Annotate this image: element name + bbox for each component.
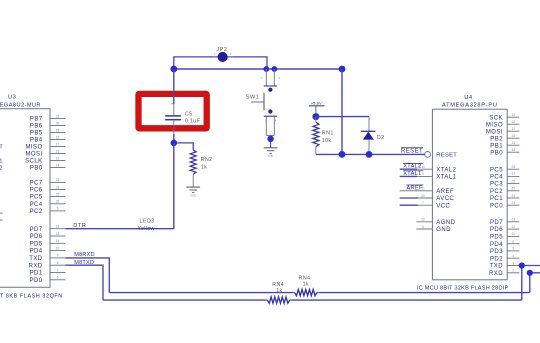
svg-text:PD5: PD5: [30, 241, 43, 247]
switch SW1 top pins: [261, 69, 281, 86]
U4 pin VCC (7) left side: [416, 201, 450, 209]
svg-text:13: 13: [512, 218, 516, 222]
U4 pin XTAL2 (10) left side: [416, 165, 456, 173]
node junction at (369,154.4): [366, 151, 373, 158]
svg-text:28: 28: [512, 165, 516, 169]
svg-text:23: 23: [56, 185, 60, 189]
net AREF wire: [400, 190, 417, 192]
U4 pin PD4 (6) right side: [490, 240, 519, 248]
resistor RN1 zigzag: [313, 117, 319, 155]
svg-text:MISO: MISO: [25, 145, 42, 151]
svg-text:D2: D2: [377, 135, 385, 141]
svg-text:RESET: RESET: [401, 149, 423, 155]
wire C5 bottom to DTR node: [173, 134, 175, 143]
svg-text:TXD: TXD: [29, 256, 43, 262]
svg-text:18: 18: [56, 135, 60, 139]
svg-text:AGND: AGND: [436, 220, 455, 226]
svg-text:RN4: RN4: [299, 275, 311, 281]
svg-text:PD5: PD5: [490, 235, 503, 241]
svg-text:PC3: PC3: [490, 182, 503, 188]
svg-text:RESET: RESET: [436, 153, 457, 159]
U3 pin PC7 (22): [30, 178, 66, 186]
highlight box around C5: [139, 94, 207, 128]
node junction at (270.6,138.8): [267, 136, 273, 142]
U4 pin PD3 (5) right side: [490, 247, 519, 255]
U4 pin MISO (18) right side: [486, 120, 520, 128]
U4 pin MOSI (17) right side: [486, 127, 520, 135]
U4 pin RESET (1) with inversion bubble: [425, 152, 458, 159]
svg-text:21: 21: [56, 114, 60, 118]
svg-text:PD7: PD7: [490, 220, 503, 226]
svg-text:12: 12: [56, 232, 60, 236]
svg-text:SCK: SCK: [489, 115, 503, 121]
net XTAL1 wire: [400, 175, 417, 177]
svg-text:PC2: PC2: [30, 209, 43, 215]
node junction at (274.3,69): [271, 66, 277, 72]
svg-text:7: 7: [57, 268, 59, 272]
svg-text:PC5: PC5: [490, 167, 503, 173]
svg-text:PB2: PB2: [490, 136, 503, 142]
svg-text:IC MCU 8BIT 32KB FLASH 28DIP: IC MCU 8BIT 32KB FLASH 28DIP: [417, 286, 509, 292]
U3 pin PC2 (5): [30, 207, 66, 215]
svg-text:MOSI: MOSI: [486, 129, 503, 135]
U3 pin RXD (8): [29, 261, 66, 269]
wire reset row RN1..U4: [316, 153, 425, 155]
svg-text:PD6: PD6: [30, 234, 43, 240]
svg-text:10: 10: [56, 246, 60, 250]
svg-text:RXD: RXD: [29, 263, 43, 269]
svg-text:PB0: PB0: [490, 150, 503, 156]
svg-text:13: 13: [56, 225, 60, 229]
SW1 upper contact: [268, 88, 272, 92]
U4 pin PC0 (23) right side: [490, 201, 519, 209]
svg-text:MOSI: MOSI: [25, 152, 42, 158]
svg-text:2: 2: [512, 269, 514, 273]
svg-text:AVCC: AVCC: [436, 196, 454, 202]
svg-text:LED3: LED3: [140, 218, 155, 224]
svg-text:6: 6: [57, 276, 59, 280]
svg-text:16: 16: [512, 134, 516, 138]
svg-text:26: 26: [56, 200, 60, 204]
U3 clipped left-side stub marks: [0, 212, 3, 215]
net VCC wire: [400, 204, 418, 206]
svg-text:Yellow: Yellow: [138, 226, 155, 232]
net label AREF with overline: [407, 185, 424, 191]
svg-text:25: 25: [56, 192, 60, 196]
U4 pin PC3 (26) right side: [490, 179, 519, 187]
U4 pin AREF (21) left side: [416, 187, 454, 195]
net label RESET with overline: [401, 148, 423, 155]
svg-text:22: 22: [56, 178, 60, 182]
svg-text:PD3: PD3: [490, 249, 503, 255]
svg-text:XTAL1: XTAL1: [436, 175, 456, 181]
svg-text:12: 12: [512, 225, 516, 229]
C5 pin lead bottom: [173, 120, 175, 135]
U4 pin PC4 (27) right side: [490, 172, 519, 180]
wire lower serial bus y=300.1: [103, 299, 522, 301]
U3 pin PD5 (11): [30, 239, 66, 247]
svg-text:6: 6: [512, 240, 514, 244]
wire top reset rail (y=69): [174, 68, 342, 70]
wire JP2 branch (y=56.9): [174, 57, 267, 69]
svg-text:VCC: VCC: [436, 203, 450, 209]
svg-text:20: 20: [56, 121, 60, 125]
wire DTR vertical up to C5 node: [173, 143, 175, 229]
svg-text:AREF: AREF: [436, 189, 454, 195]
ground below SW1: [264, 148, 278, 158]
svg-text:18: 18: [512, 120, 516, 124]
U3 pin PC5 (25): [30, 192, 66, 200]
U4 pin XTAL1 (9) left side: [416, 172, 456, 180]
svg-text:22: 22: [421, 218, 425, 222]
svg-text:PB7: PB7: [30, 117, 43, 123]
U3 pin SCLK (15): [25, 156, 65, 164]
svg-text:IC MCU 8BIT 8KB FLASH 32QFN: IC MCU 8BIT 8KB FLASH 32QFN: [0, 293, 63, 299]
wire U4.RXD to upper bus: [530, 273, 540, 293]
U4 pin PD5 (11) right side: [490, 232, 519, 240]
ground below RN2: [186, 187, 200, 197]
U4 pin PB1 (15) right side: [490, 141, 519, 149]
svg-text:2: 2: [0, 166, 2, 172]
svg-text:3: 3: [512, 261, 514, 265]
net XTAL2 wire: [400, 168, 417, 170]
SW1 actuator: [251, 93, 264, 111]
svg-text:26: 26: [512, 179, 516, 183]
svg-text:PC5: PC5: [30, 195, 43, 201]
U4 pin PD2 (4) right side: [490, 254, 519, 262]
U4 pin PC1 (24) right side: [490, 194, 519, 202]
svg-text:9: 9: [57, 254, 59, 258]
wire DTR from U3.PD7: [66, 228, 174, 230]
svg-text:TXD: TXD: [490, 264, 504, 270]
svg-text:17: 17: [56, 142, 60, 146]
net label XTAL2 with overline: [403, 163, 423, 169]
svg-text:1k: 1k: [201, 164, 207, 170]
svg-text:4: 4: [512, 254, 514, 258]
svg-text:7: 7: [422, 201, 424, 205]
op IC U3 ATMEGA8U2-MUR outline: [0, 109, 50, 287]
svg-text:19: 19: [56, 128, 60, 132]
svg-text:PD6: PD6: [490, 227, 503, 233]
U4 pin RXD (2) right side: [489, 269, 519, 277]
svg-text:PC2: PC2: [490, 189, 503, 195]
svg-text:17: 17: [512, 127, 516, 131]
svg-text:15: 15: [56, 156, 60, 160]
svg-text:16: 16: [56, 149, 60, 153]
svg-text:25: 25: [512, 187, 516, 191]
svg-text:U3: U3: [8, 95, 16, 101]
svg-text:PC4: PC4: [490, 175, 503, 181]
svg-text:+5.6V: +5.6V: [311, 102, 322, 106]
wire M8TXD from U3.RXD: [66, 265, 104, 300]
node junction at (315.9,116.6): [312, 113, 319, 120]
svg-text:PC1: PC1: [490, 196, 503, 202]
U3 pin PB5 (19): [30, 128, 66, 136]
svg-text:PB1: PB1: [490, 143, 503, 149]
U3 pin PD4 (10): [30, 246, 66, 254]
U3 pin PD0 (6): [30, 276, 66, 284]
svg-text:XTAL2: XTAL2: [436, 167, 456, 173]
D2 top lead: [368, 117, 370, 132]
svg-text:20: 20: [421, 194, 425, 198]
svg-text:RN2: RN2: [201, 157, 213, 163]
svg-text:14: 14: [56, 163, 60, 167]
svg-text:PB5: PB5: [30, 131, 43, 137]
svg-text:PC6: PC6: [30, 188, 43, 194]
wire M8RXD from U3.TXD: [66, 258, 110, 293]
svg-text:RN4: RN4: [272, 282, 284, 288]
svg-text:27: 27: [512, 172, 516, 176]
U3 pin PB7 (21): [30, 114, 66, 122]
U4 pin PD7 (13) right side: [490, 218, 519, 226]
svg-text:PB0: PB0: [30, 166, 43, 172]
svg-text:XTAL2: XTAL2: [403, 164, 421, 170]
node junction at (266.3,69): [263, 66, 269, 72]
svg-text:15: 15: [512, 141, 516, 145]
svg-text:9: 9: [422, 172, 424, 176]
svg-text:SCLK: SCLK: [25, 159, 42, 165]
IC U4 ATMEGA328P-PU outline: [432, 109, 507, 280]
svg-text:GND: GND: [436, 227, 451, 233]
svg-text:C5: C5: [185, 111, 193, 117]
svg-text:AREF: AREF: [407, 185, 424, 191]
svg-text:JP2: JP2: [216, 47, 227, 53]
U4 pin TXD (3) right side: [490, 261, 520, 269]
svg-text:1k: 1k: [276, 288, 282, 294]
svg-text:PD4: PD4: [30, 249, 43, 255]
U3 pin PC6 (23): [30, 185, 66, 193]
node junction at (529.8,272.2): [527, 270, 533, 276]
net AVCC wire: [400, 197, 418, 199]
U3 pin PD1 (7): [30, 268, 66, 276]
wire vertical x=342 down to reset row: [341, 69, 343, 154]
U3 pin PD7 (13): [30, 225, 66, 233]
U4 pin PD6 (12) right side: [490, 225, 519, 233]
U4 pin AGND (22) left side: [416, 218, 455, 226]
svg-text:14: 14: [512, 148, 516, 152]
diode D2: [361, 131, 376, 154]
U3 pin PB0 (14): [30, 163, 66, 171]
svg-text:PD4: PD4: [490, 242, 503, 248]
node junction at (521.8,265.0): [519, 262, 525, 268]
wire from top rail down to C5: [173, 69, 175, 104]
SW1 lower contact: [268, 109, 272, 113]
svg-text:24: 24: [512, 194, 516, 198]
svg-text:PB6: PB6: [30, 124, 43, 130]
U4 pin SCK (19) right side: [489, 113, 519, 121]
U4 pin GND (8) left side: [416, 225, 451, 233]
node junction at (173.8,69): [170, 66, 177, 73]
svg-text:PD2: PD2: [490, 256, 503, 262]
svg-text:23: 23: [512, 201, 516, 205]
svg-text:19: 19: [512, 113, 516, 117]
svg-text:PC4: PC4: [30, 202, 43, 208]
svg-text:PB4: PB4: [30, 138, 43, 144]
svg-text:MISO: MISO: [486, 122, 503, 128]
net label XTAL1 with overline: [403, 171, 423, 177]
U3 pin TXD (9): [29, 254, 65, 262]
svg-text:RXD: RXD: [489, 271, 503, 277]
U3 pin MOSI (16): [25, 149, 65, 157]
svg-text:RN1: RN1: [322, 130, 334, 136]
svg-text:XTAL1: XTAL1: [403, 171, 421, 177]
svg-text:11: 11: [512, 232, 516, 236]
U3 pin PB6 (20): [30, 121, 66, 129]
resistor RN2 zigzag: [190, 150, 196, 175]
node junction at (342,69): [339, 66, 346, 73]
svg-text:10: 10: [421, 165, 425, 169]
svg-text:ATMEGA8U2-MUR: ATMEGA8U2-MUR: [0, 103, 41, 109]
svg-text:10k: 10k: [322, 138, 332, 144]
svg-text:1: 1: [0, 159, 2, 165]
capacitor C5 plates: [165, 116, 181, 120]
resistor RN4 (upper) zigzag: [292, 290, 319, 296]
U3 pin MISO (17): [25, 142, 65, 150]
svg-text:0.1uF: 0.1uF: [185, 119, 201, 125]
wire SW1 to ground: [270, 136, 272, 148]
resistor RN4 (lower) zigzag: [265, 297, 292, 303]
svg-text:8: 8: [422, 225, 424, 229]
U4 pin PC5 (28) right side: [490, 165, 519, 173]
svg-text:PC0: PC0: [490, 203, 503, 209]
U4 pin PB0 (14) right side: [490, 148, 519, 156]
svg-text:PC7: PC7: [30, 181, 43, 187]
U3 pin PD6 (12): [30, 232, 66, 240]
svg-text:SW1: SW1: [246, 94, 259, 100]
svg-text:PD0: PD0: [30, 278, 43, 284]
svg-text:5: 5: [512, 247, 514, 251]
node junction at (173.8,142.9): [171, 140, 178, 147]
svg-text:GND: GND: [191, 194, 197, 197]
node junction at (342,154.4): [339, 151, 346, 158]
wire upper serial bus y=292.6: [109, 292, 530, 294]
svg-text:PD1: PD1: [30, 271, 43, 277]
svg-text:PD7: PD7: [30, 227, 43, 233]
svg-text:8: 8: [57, 261, 59, 265]
svg-text:ATMEGA328P-PU: ATMEGA328P-PU: [442, 103, 498, 109]
wire U4.TXD to lower bus: [522, 266, 540, 301]
SW1 bottom pins: [264, 116, 277, 135]
svg-text:GND: GND: [268, 155, 274, 158]
power +5.6V supply symbol: [309, 102, 325, 114]
svg-text:1k: 1k: [303, 282, 309, 288]
C5 pin lead top with tick: [173, 104, 175, 116]
wire +5V node to D2 top: [316, 116, 369, 118]
U3 pin PC4 (26): [30, 200, 66, 208]
svg-text:11: 11: [56, 239, 60, 243]
svg-text:U4: U4: [464, 95, 473, 101]
U4 pin AVCC (20) left side: [416, 194, 454, 202]
svg-text:DTR: DTR: [73, 223, 86, 229]
svg-text:5: 5: [57, 207, 59, 211]
U3 pin PB4 (18): [30, 135, 66, 143]
jumper JP2: [213, 52, 233, 62]
wire DTR node to RN2 top: [174, 143, 193, 150]
U4 pin PB2 (16) right side: [490, 134, 519, 142]
U4 pin PC2 (25) right side: [490, 187, 519, 195]
RN2 bottom lead: [192, 174, 194, 187]
